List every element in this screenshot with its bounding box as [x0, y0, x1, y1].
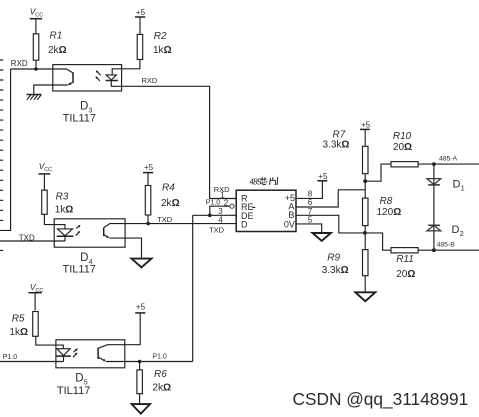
svg-text:TIL117: TIL117 — [57, 385, 90, 397]
svg-text:P1.0: P1.0 — [206, 200, 221, 207]
svg-text:D: D — [75, 373, 83, 385]
svg-text:R5: R5 — [12, 314, 25, 325]
svg-text:1kΩ: 1kΩ — [9, 327, 28, 338]
svg-text:P1.0: P1.0 — [152, 353, 167, 360]
svg-text:D: D — [80, 101, 88, 113]
svg-text:R8: R8 — [380, 196, 393, 207]
svg-text:2: 2 — [460, 231, 464, 238]
svg-text:0V: 0V — [284, 219, 295, 229]
svg-text:R10: R10 — [393, 131, 412, 142]
svg-text:R2: R2 — [154, 31, 167, 42]
svg-text:R3: R3 — [56, 191, 69, 202]
svg-text:2kΩ: 2kΩ — [152, 383, 171, 394]
svg-text:TIL117: TIL117 — [63, 264, 96, 276]
svg-text:CC: CC — [35, 13, 43, 19]
svg-text:D: D — [241, 220, 248, 230]
svg-text:20Ω: 20Ω — [396, 269, 415, 280]
svg-text:485: 485 — [249, 178, 261, 187]
svg-text:R1: R1 — [50, 31, 63, 42]
svg-text:TIL117: TIL117 — [63, 113, 96, 125]
svg-text:5: 5 — [308, 216, 313, 225]
svg-text:8: 8 — [308, 190, 313, 199]
svg-text:R4: R4 — [162, 183, 175, 194]
svg-text:+5: +5 — [136, 302, 146, 311]
svg-text:3.3kΩ: 3.3kΩ — [323, 140, 350, 151]
svg-text:P1.0: P1.0 — [3, 354, 18, 361]
svg-text:+5: +5 — [144, 163, 154, 172]
svg-text:TXD: TXD — [157, 215, 173, 224]
svg-text:+5: +5 — [361, 120, 371, 129]
svg-text:3.3kΩ: 3.3kΩ — [322, 265, 349, 276]
svg-text:6: 6 — [308, 198, 313, 207]
svg-text:2: 2 — [224, 199, 229, 208]
svg-text:2kΩ: 2kΩ — [161, 198, 180, 209]
svg-text:+5: +5 — [136, 8, 146, 17]
svg-text:120Ω: 120Ω — [377, 207, 402, 218]
svg-text:1: 1 — [461, 186, 465, 193]
svg-text:2kΩ: 2kΩ — [48, 45, 67, 56]
svg-text:RXD: RXD — [11, 59, 28, 68]
svg-text:CSDN @qq_31148991: CSDN @qq_31148991 — [293, 389, 469, 409]
svg-text:1kΩ: 1kΩ — [55, 204, 74, 215]
svg-text:20Ω: 20Ω — [393, 142, 412, 153]
svg-text:+5: +5 — [318, 172, 328, 181]
svg-text:R11: R11 — [396, 254, 414, 265]
svg-text:RXD: RXD — [142, 76, 158, 85]
svg-text:1kΩ: 1kΩ — [153, 45, 172, 56]
svg-text:4: 4 — [218, 216, 223, 225]
svg-text:485-A: 485-A — [439, 156, 458, 163]
svg-text:CC: CC — [44, 167, 52, 173]
svg-text:485-B: 485-B — [437, 241, 456, 248]
svg-text:R6: R6 — [154, 369, 167, 380]
svg-text:D: D — [80, 252, 88, 264]
svg-text:R9: R9 — [327, 252, 340, 263]
svg-text:D: D — [452, 224, 460, 236]
svg-text:D: D — [453, 179, 461, 191]
svg-text:TXD: TXD — [209, 226, 225, 235]
